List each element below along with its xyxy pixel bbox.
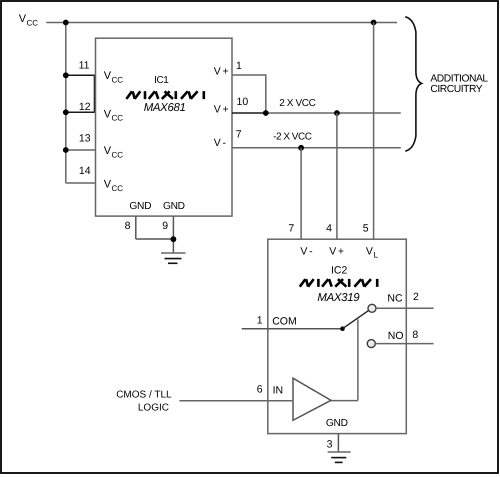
node junction dot top rail / left bus (63, 20, 69, 26)
svg-text:LOGIC: LOGIC (138, 403, 169, 414)
svg-text:8: 8 (125, 220, 131, 232)
svg-text:5: 5 (363, 222, 369, 234)
node junction dot top rail / IC2 VL vertical (371, 20, 377, 26)
ground symbol (IC2) (328, 452, 351, 462)
node junction dot -2xVCC/IC2 V- (298, 145, 304, 151)
svg-text:V -: V - (214, 137, 227, 149)
svg-text:2: 2 (413, 291, 419, 303)
wire buffer output (330, 400, 358, 402)
svg-text:IN: IN (273, 385, 284, 397)
svg-text:13: 13 (79, 133, 91, 145)
pin label VCC (pin 13) (104, 145, 123, 159)
node junction dot pin 12 (63, 109, 69, 115)
svg-text:9: 9 (162, 220, 168, 232)
svg-text:MAX681: MAX681 (144, 102, 186, 114)
wire left vertical bus (65, 23, 67, 184)
wire IN line (179, 400, 293, 402)
wire GND pin 3 stub (337, 434, 339, 452)
svg-text:12: 12 (79, 101, 91, 113)
svg-text:4: 4 (326, 222, 332, 234)
wire switch arm (343, 311, 369, 329)
wire IC2 V+ vertical (pin 4) (336, 113, 338, 239)
svg-text:MAX319: MAX319 (317, 292, 360, 304)
svg-text:GND: GND (163, 201, 185, 212)
wire IC2 V- vertical (pin 7) (300, 148, 302, 239)
svg-text:14: 14 (79, 165, 91, 177)
svg-text:V +: V + (214, 103, 229, 115)
wire pin 12 stub (66, 111, 95, 113)
svg-text:COM: COM (272, 316, 297, 328)
node junction dot pin 11 (63, 72, 69, 78)
switch contact circle NC (368, 304, 376, 312)
wire -2xVCC rail (pin 7 IC1) (232, 147, 401, 149)
svg-text:-2 X VCC: -2 X VCC (273, 132, 312, 143)
node junction dot 2xVCC/IC2 V+ (334, 110, 340, 116)
wire pin8-pin9 connector (136, 238, 174, 240)
svg-text:CC: CC (112, 114, 124, 123)
node junction dot GND (171, 236, 177, 242)
node junction dot COM pivot (340, 326, 345, 331)
wire pin 11 stub (66, 74, 95, 76)
pin label VL (366, 245, 379, 259)
wire NO line (375, 343, 433, 345)
wire pin 14 stub (66, 182, 96, 184)
svg-text:GND: GND (129, 201, 151, 212)
svg-text:V: V (366, 245, 373, 257)
op-amp IC1 box MAX681 (96, 38, 233, 216)
wire VCC top rail (46, 22, 397, 24)
logo MAXIM (IC1) (126, 91, 203, 99)
svg-text:1: 1 (257, 315, 263, 327)
svg-text:IC2: IC2 (331, 265, 348, 277)
wire IC2 VL vertical (pin 5) (373, 23, 375, 240)
buffer triangle (293, 378, 331, 420)
pin label VCC (pin 11) (104, 70, 123, 84)
svg-text:6: 6 (257, 384, 263, 396)
wire pin 10 stub (black) (232, 112, 266, 114)
svg-text:ADDITIONAL: ADDITIONAL (430, 74, 488, 85)
logo MAXIM (IC2) (300, 279, 377, 287)
node junction dot pin1/2xVCC (263, 110, 269, 116)
pin label VCC (pin 14) (104, 178, 123, 192)
wire COM line (242, 328, 343, 330)
svg-text:CIRCUITRY: CIRCUITRY (430, 84, 482, 95)
pin label VCC (pin 12) (104, 108, 123, 122)
svg-text:7: 7 (236, 129, 242, 141)
ground symbol (IC1) (161, 253, 186, 263)
wire pin 13 stub (66, 149, 96, 151)
svg-text:CMOS / TLL: CMOS / TLL (116, 390, 172, 401)
svg-text:11: 11 (79, 60, 90, 72)
svg-text:1: 1 (236, 60, 242, 72)
svg-text:L: L (374, 251, 379, 260)
brace additional circuitry (405, 17, 421, 151)
wire GND pin 8 stub (135, 216, 137, 239)
wire pin 11-12 connector (94, 75, 96, 112)
svg-text:3: 3 (327, 439, 333, 451)
svg-text:NO: NO (388, 330, 404, 342)
wire 2xVCC rail (266, 112, 401, 114)
svg-text:8: 8 (412, 329, 418, 341)
node junction dot pin 13 (63, 147, 69, 153)
svg-text:10: 10 (237, 96, 249, 108)
switch contact circle NO (367, 340, 375, 348)
wire GND pin 9 stub (172, 216, 174, 253)
svg-text:CC: CC (112, 76, 124, 85)
svg-text:NC: NC (387, 293, 403, 305)
svg-text:GND: GND (326, 418, 348, 429)
svg-text:2 X VCC: 2 X VCC (279, 98, 315, 109)
svg-text:7: 7 (288, 222, 294, 234)
svg-text:V -: V - (300, 245, 313, 257)
svg-text:CC: CC (112, 184, 124, 193)
wire NC line (376, 307, 434, 309)
svg-text:CC: CC (112, 150, 124, 159)
svg-text:V +: V + (329, 245, 344, 257)
svg-text:V +: V + (214, 66, 229, 78)
svg-text:CC: CC (27, 19, 39, 28)
wire switch output vertical (357, 319, 359, 400)
svg-text:IC1: IC1 (154, 75, 169, 86)
op-amp IC2 box MAX319 (268, 239, 407, 433)
wire pin 1 stub (232, 75, 266, 113)
